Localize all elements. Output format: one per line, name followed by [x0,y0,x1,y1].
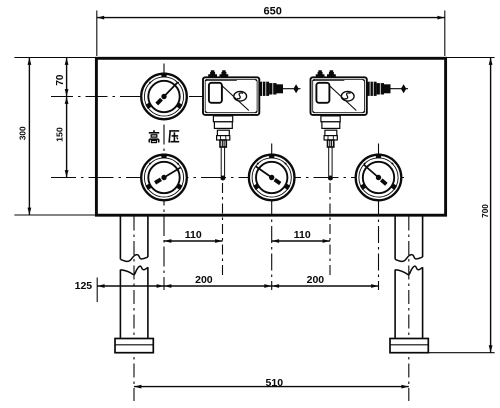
right leg pipe [395,215,423,339]
gauge P2 bottom-left [141,154,187,201]
centerline right leg [408,217,410,402]
centerline gauge1 vertical [163,64,165,291]
svg-text:650: 650 [264,5,282,17]
pressure switch S1 [203,70,301,180]
svg-text:110: 110 [294,229,311,241]
svg-text:200: 200 [307,274,325,286]
dimension 150 [54,97,68,178]
centerline gauge middle vertical [271,144,273,291]
dimension row 125/200/200 [75,274,379,302]
extension line probe1 [222,183,224,276]
dimension 110 first [164,229,223,243]
dimension 110 second [272,229,330,243]
label 高压 [149,130,179,142]
extension line probe2 [329,183,331,276]
svg-text:125: 125 [75,280,93,292]
centerline left leg [133,217,135,402]
svg-text:510: 510 [266,377,284,389]
left foot [115,339,153,353]
gauge P1 top-left [141,73,187,120]
centerline row1 horizontal [51,96,203,98]
dimension 510 bottom [134,377,409,389]
svg-text:200: 200 [195,274,213,286]
svg-text:110: 110 [185,229,202,241]
left leg pipe [120,215,147,339]
gauge P3 bottom-middle [249,154,295,201]
panel outline [96,58,445,215]
svg-text:300: 300 [19,126,28,140]
svg-text:700: 700 [481,204,490,218]
centerline row2 horizontal [51,177,404,179]
gauge P4 bottom-right [356,154,402,201]
centerline gauge right vertical [378,144,380,291]
right foot [390,339,428,353]
svg-text:70: 70 [55,74,66,86]
dimension 70 [55,58,68,97]
dimension 700 right [428,58,494,353]
pressure switch S2 [311,70,409,180]
svg-text:150: 150 [54,127,64,142]
dimension 300 left [14,58,96,216]
dimension 650 top [97,5,445,56]
